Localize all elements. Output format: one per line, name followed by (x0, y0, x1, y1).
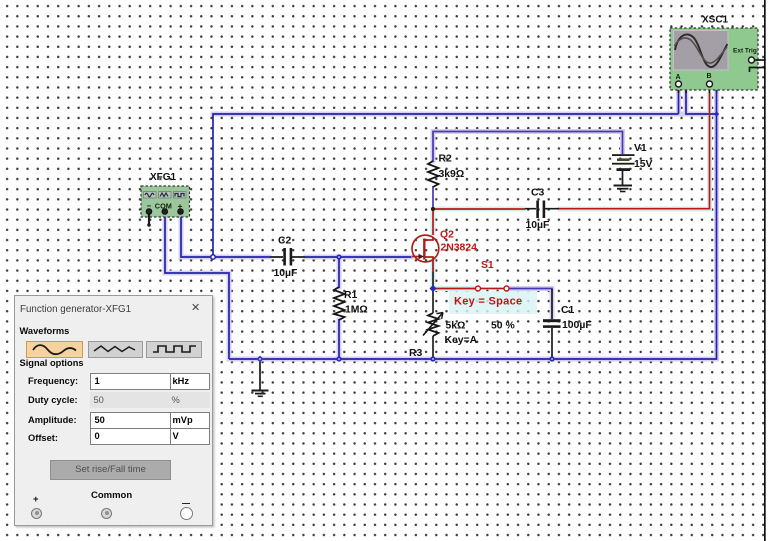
svg-text:10µF: 10µF (526, 220, 550, 231)
svg-text:S1: S1 (481, 260, 494, 271)
terminal: XFG1 plus (178, 209, 184, 215)
node: ground tap (260,359) (256, 355, 263, 362)
amplitude value field (90, 412, 175, 429)
workspace right border (764, 0, 766, 541)
svg-text:C3: C3 (531, 188, 545, 199)
plus terminal jack (31, 508, 42, 519)
wire halo glow for blue nets (165, 86, 717, 359)
svg-text:C2: C2 (278, 236, 292, 247)
minus terminal label (182, 503, 190, 505)
terminal: XSC1 Ext Trig (749, 57, 755, 63)
svg-text:B: B (707, 73, 712, 80)
capacitor C1 labels (561, 305, 592, 331)
switch S1 labels (454, 260, 522, 308)
wire: C2 right lead to Q2 gate (305, 256, 412, 258)
function generator XFG1 instrument (141, 186, 190, 217)
wire: input node to C2 left lead (215, 256, 270, 258)
battery V1 (612, 154, 635, 185)
wire: drain node to C3 (red) (433, 208, 525, 210)
wire: R3 leads (432, 289, 434, 360)
node: input node (213,257) (211, 255, 215, 259)
resistor R2 labels (439, 154, 465, 181)
svg-text:10µF: 10µF (274, 268, 298, 279)
wire: big loop left vertical (node up) and top run to scope A (213, 85, 717, 256)
sine waveform button (active) (26, 341, 83, 358)
wire: C3 to scope B plus (red) (558, 93, 710, 209)
svg-text:50 %: 50 % (491, 321, 515, 332)
duty cycle label (28, 395, 78, 405)
svg-text:15V: 15V (634, 159, 653, 170)
wire: scope B minus pin drop to right vertical (710, 85, 717, 115)
terminal: XFG1 minus with stub (146, 209, 152, 227)
offset value field (90, 429, 175, 445)
resistor R1 labels (344, 290, 368, 316)
svg-text:XSC1: XSC1 (702, 15, 729, 26)
svg-text:5kΩ: 5kΩ (446, 321, 466, 332)
battery V1 labels (634, 143, 653, 170)
offset unit field (170, 429, 210, 445)
wire: right vertical down and bottom rail (229, 114, 717, 359)
wire: switch to C1 segment (509, 289, 553, 291)
minus terminal jack (180, 507, 193, 520)
node: R3 bottom (433,359) (430, 356, 435, 361)
common terminal jack (101, 508, 112, 519)
wire: drain vertical into Q2 (red) (432, 209, 434, 235)
svg-text:R2: R2 (439, 154, 453, 165)
svg-text:R1: R1 (344, 290, 358, 301)
node: R1 top (339,257) (336, 254, 341, 259)
node: switch node (433,288.5) (429, 285, 436, 292)
svg-text:1MΩ: 1MΩ (345, 305, 368, 316)
terminal: XSC1 A (676, 81, 682, 87)
svg-text:Key=A: Key=A (445, 335, 478, 346)
wire: switch node to S1 left contact (red) (433, 288, 476, 290)
svg-text:A: A (676, 74, 681, 81)
wire: XFG1 plus terminal to input node (181, 214, 211, 257)
common label (91, 490, 132, 501)
dialog title (20, 304, 131, 315)
dialog close button (191, 301, 200, 314)
offset label (28, 433, 58, 443)
wire: C1 leads (551, 289, 553, 359)
transistor Q2 labels (440, 230, 477, 254)
svg-text:C1: C1 (561, 305, 575, 316)
capacitor C1 (polarized) (543, 319, 561, 328)
capacitor C2 labels (274, 236, 298, 280)
duty cycle unit (disabled) (170, 392, 210, 408)
set rise/fall time button (50, 460, 171, 480)
dialog: Function generator-XFG1 (14, 295, 213, 526)
terminal: XSC1 B (707, 81, 713, 87)
node: drain junction (433,209) (431, 207, 435, 211)
svg-text:100µF: 100µF (562, 320, 592, 331)
wire: R1 branch verticals (338, 257, 340, 359)
frequency value field (90, 373, 175, 390)
capacitor C3 labels (526, 188, 550, 232)
svg-text:Q2: Q2 (440, 230, 454, 241)
switch S1 (476, 286, 510, 291)
terminal: XFG1 COM (162, 209, 168, 215)
node: top right junction (716.5,114) (714, 111, 719, 116)
transistor Q2 (JFET) (412, 235, 439, 262)
capacitor C3 (525, 201, 559, 219)
plus terminal label (33, 494, 39, 505)
oscilloscope XSC1 (670, 28, 758, 90)
amplitude unit field (170, 412, 210, 429)
triangle waveform button (88, 341, 143, 358)
wire: XFG1 COM to bottom rail (left riser) (165, 214, 229, 359)
resistor R1 (334, 287, 345, 320)
svg-text:V1: V1 (634, 143, 647, 154)
wire: scope terminal black stubs (679, 85, 717, 94)
amplitude label (28, 415, 77, 425)
svg-text:XFG1: XFG1 (150, 172, 177, 183)
duty cycle value (disabled) (90, 392, 178, 408)
svg-text:2N3824: 2N3824 (441, 243, 478, 254)
potentiometer R3 labels (409, 321, 515, 360)
wire halo glow for red nets (433, 95, 710, 314)
wire: Q2 source down to switch node (432, 259, 434, 289)
svg-text:Key = Space: Key = Space (454, 296, 522, 308)
frequency label (28, 376, 78, 386)
ground under battery V1 (614, 186, 633, 192)
waveforms section label (20, 326, 70, 336)
node: C1 bottom (552,359) (549, 356, 554, 361)
svg-text:3k9Ω: 3k9Ω (439, 169, 465, 180)
svg-text:Ext Trig: Ext Trig (733, 48, 757, 55)
frequency unit field (170, 373, 210, 390)
resistor R2 (428, 161, 439, 187)
wire: ground stub at bottom rail (259, 359, 261, 390)
wire: battery top run to R2 top (433, 132, 623, 209)
node: R1 bottom (339,359) (336, 356, 341, 361)
svg-text:R3: R3 (409, 348, 423, 359)
signal options section label (20, 358, 84, 368)
potentiometer R3 (423, 313, 443, 337)
wire: Ext Trig hook (750, 60, 769, 72)
capacitor C2 (270, 248, 305, 266)
square waveform button (146, 341, 202, 358)
ground at bottom rail (252, 391, 269, 397)
